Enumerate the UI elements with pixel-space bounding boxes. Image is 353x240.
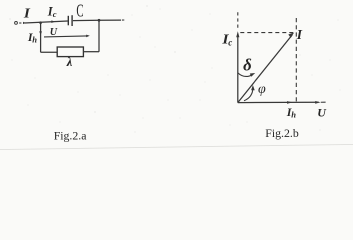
scan noise speckles — [10, 6, 341, 133]
wire (top, terminal to capacitor) — [25, 21, 68, 23]
svg-text:c: c — [53, 9, 57, 19]
phasor Ic (vertical axis, arrow up) — [236, 31, 239, 102]
construction line (dashed horizontal to I tip) — [240, 32, 293, 34]
wire (terminal dash) — [19, 22, 21, 24]
svg-text:c: c — [228, 38, 232, 48]
svg-text:φ: φ — [258, 82, 266, 97]
terminal (input, left) — [15, 22, 18, 25]
phasor I (diagonal) — [238, 32, 294, 102]
construction line (dashed vertical through I tip) — [295, 18, 297, 102]
wire (bottom right) — [83, 51, 99, 53]
svg-text:I: I — [296, 27, 303, 42]
wire (left vertical of resistor loop) — [40, 23, 42, 53]
svg-text:Fig.2.a: Fig.2.a — [54, 129, 88, 143]
angle arc delta — [238, 73, 256, 77]
current arrow I on wire — [23, 22, 26, 24]
svg-text:I: I — [23, 7, 31, 22]
angle arc phi — [244, 85, 255, 101]
axis U (horizontal, arrow right) — [238, 101, 326, 104]
wire (right vertical of resistor loop) — [98, 20, 100, 52]
phasor Ih (arrow on axis) — [287, 101, 293, 104]
wire (capacitor to right node) — [73, 19, 99, 21]
current arrow Ih (down) — [39, 31, 42, 35]
current arrow Ic on wire — [51, 20, 55, 23]
svg-text:h: h — [32, 34, 37, 44]
voltage arrow U — [44, 35, 90, 38]
wire (stub dash) — [122, 19, 124, 21]
svg-text:λ: λ — [66, 55, 73, 69]
resistor R (box) — [57, 47, 83, 57]
scan artifact: faint page edge line — [0, 144, 353, 149]
svg-text:Fig.2.b: Fig.2.b — [265, 126, 299, 140]
capacitor C — [68, 15, 72, 26]
svg-text:U: U — [50, 26, 58, 38]
node (right junction) — [98, 19, 101, 22]
svg-text:h: h — [291, 110, 296, 120]
svg-text:U: U — [317, 106, 327, 120]
wire (bottom left) — [41, 51, 58, 53]
wire (top right stub) — [99, 19, 121, 21]
node (junction of shunt branch) — [39, 21, 42, 24]
svg-text:δ: δ — [243, 56, 252, 75]
wire (dashed axis extension above Ic) — [237, 12, 239, 30]
svg-text:C: C — [76, 1, 83, 21]
